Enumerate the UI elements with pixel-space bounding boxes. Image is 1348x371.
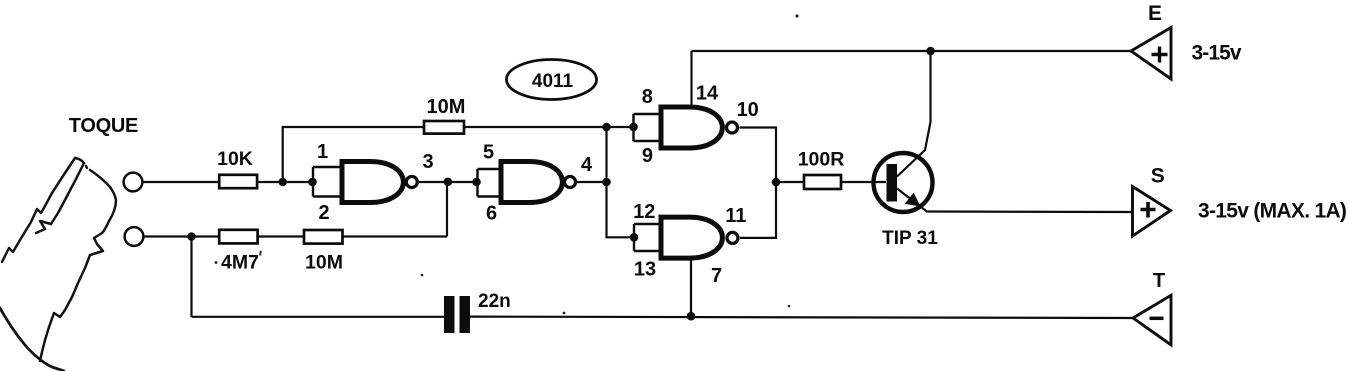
wire pin7 to bottom rail xyxy=(690,258,692,316)
terminal E plus sign xyxy=(1152,47,1168,63)
node 100R input xyxy=(772,178,781,187)
transistor emitter arrow xyxy=(905,193,921,207)
svg-text:TIP 31: TIP 31 xyxy=(882,228,938,249)
hand sketch (finger touching pads) xyxy=(0,158,116,371)
NAND gate U1B input stubs xyxy=(478,169,502,197)
resistor 10K xyxy=(219,175,257,188)
resistor 100R xyxy=(804,175,841,189)
resistor 4M7 xyxy=(219,230,257,244)
node bottom rail pin7 xyxy=(687,312,696,321)
node gate4 bracket xyxy=(630,233,639,242)
svg-text:3-15v: 3-15v xyxy=(1192,42,1242,65)
node 3 junction xyxy=(444,178,453,187)
stray speck right xyxy=(788,305,791,308)
svg-text:4011: 4011 xyxy=(532,71,574,92)
NAND gate U1B output bubble xyxy=(565,177,576,188)
node junction 10K-feedback xyxy=(278,178,287,187)
svg-text:13: 13 xyxy=(634,259,656,281)
stray speck top xyxy=(795,14,798,17)
wire feedback riser and top run xyxy=(283,127,607,182)
svg-text:2: 2 xyxy=(318,202,329,224)
wire bottom-left riser xyxy=(190,237,192,318)
NAND gate U1A output bubble xyxy=(406,177,417,188)
svg-text:10: 10 xyxy=(737,99,759,121)
svg-text:1: 1 xyxy=(317,141,328,163)
transistor emitter wire xyxy=(897,189,928,213)
node gate3 bracket xyxy=(629,123,638,132)
node gate2 bracket xyxy=(472,178,481,187)
NAND gate U1A input stubs xyxy=(313,167,342,197)
wire bottom rail right of capacitor xyxy=(470,317,1133,318)
svg-text:14: 14 xyxy=(696,82,719,104)
svg-text:8: 8 xyxy=(642,86,653,108)
wire node4 distribution riser xyxy=(607,127,635,237)
svg-text:11: 11 xyxy=(725,205,746,227)
svg-text:12: 12 xyxy=(633,201,655,223)
svg-text:S: S xyxy=(1151,164,1165,187)
terminal pad top xyxy=(124,173,143,192)
stray speck left xyxy=(421,274,424,277)
terminal T triangle xyxy=(1133,295,1171,345)
wire feedback to gate3 bracket xyxy=(607,126,634,128)
svg-text:10M: 10M xyxy=(427,96,466,118)
stray dot left of 4M7 xyxy=(215,261,218,264)
stray tick near 4M7 xyxy=(259,250,262,255)
node gate1 bracket xyxy=(308,178,317,187)
NAND gate U1C output bubble xyxy=(727,122,738,133)
wire gate4 output up to 100R node xyxy=(740,182,776,238)
NAND gate U1C input stubs xyxy=(634,114,662,141)
wire gate3 output down to 100R node xyxy=(740,128,777,183)
svg-text:7: 7 xyxy=(711,265,722,287)
svg-text:E: E xyxy=(1148,2,1162,25)
svg-text:9: 9 xyxy=(642,145,653,167)
NAND gate U1A body xyxy=(342,162,403,203)
wire E rail xyxy=(692,50,1132,52)
terminal S triangle xyxy=(1133,187,1171,237)
svg-text:3-15v (MAX. 1A): 3-15v (MAX. 1A) xyxy=(1198,199,1346,222)
transistor collector wire to E rail xyxy=(897,51,931,177)
wire gate2 output to node4 xyxy=(577,181,607,183)
svg-text:T: T xyxy=(1153,270,1165,292)
wire S line emitter to terminal xyxy=(928,210,1133,213)
transistor Q1 TIP 31 circle xyxy=(874,153,933,212)
stray speck mid xyxy=(563,312,566,315)
svg-text:10K: 10K xyxy=(217,148,253,170)
terminal E triangle xyxy=(1131,28,1171,80)
wire pin14 to E rail xyxy=(690,51,692,107)
svg-text:3: 3 xyxy=(422,151,433,173)
wire 100R row xyxy=(776,181,886,183)
svg-text:TOQUE: TOQUE xyxy=(69,115,138,137)
svg-text:4: 4 xyxy=(581,154,593,176)
NAND gate U1D output bubble xyxy=(727,232,738,243)
IC label oval 4011 xyxy=(507,60,597,100)
node E rail collector xyxy=(926,47,935,56)
wire bottom input row xyxy=(144,235,448,237)
svg-text:10M: 10M xyxy=(305,252,343,274)
terminal T minus sign xyxy=(1150,317,1164,321)
svg-text:100R: 100R xyxy=(798,149,845,171)
capacitor 22n plates xyxy=(444,296,470,333)
node bottom input riser xyxy=(187,232,196,241)
svg-text:22n: 22n xyxy=(478,291,511,312)
svg-text:6: 6 xyxy=(486,203,497,225)
NAND gate U1B body xyxy=(501,162,562,203)
resistor 10M (bottom) xyxy=(304,230,343,244)
NAND gate U1D input stubs xyxy=(634,224,661,251)
terminal pad bottom xyxy=(125,227,144,246)
svg-text:4M7: 4M7 xyxy=(221,252,259,274)
terminal S plus sign xyxy=(1141,202,1156,218)
wire gate1 output to gate2 input xyxy=(419,181,478,183)
resistor 10M (feedback) xyxy=(424,121,464,134)
wire bottom rail left of capacitor xyxy=(192,316,445,318)
node feedback corner xyxy=(602,123,611,132)
node 4 junction xyxy=(602,178,611,187)
transistor base bar xyxy=(887,164,898,202)
NAND gate U1C body xyxy=(661,107,722,148)
wire top input row xyxy=(143,181,314,183)
svg-text:5: 5 xyxy=(483,142,494,164)
NAND gate U1D body xyxy=(661,217,722,258)
wire node3 riser from bottom row xyxy=(446,182,448,237)
